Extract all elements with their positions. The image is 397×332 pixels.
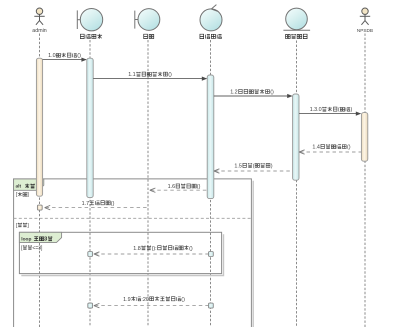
svg-text:3: 3: [44, 237, 47, 243]
svg-text:1.0: 1.0: [48, 53, 56, 59]
svg-text:): ): [351, 107, 353, 113]
svg-text:(): (): [347, 145, 351, 151]
svg-text:1.6: 1.6: [168, 184, 176, 190]
svg-text:admin: admin: [32, 28, 46, 34]
svg-text:(): (): [111, 201, 115, 207]
svg-text:1.2: 1.2: [230, 90, 238, 96]
svg-text:NPSDB: NPSDB: [357, 28, 373, 33]
svg-text:loop: loop: [21, 236, 31, 242]
svg-text:(): (): [168, 72, 172, 78]
svg-text:(): (): [197, 184, 201, 190]
svg-text:(): (): [77, 53, 81, 59]
svg-text:): ): [271, 163, 273, 169]
svg-text:1.5: 1.5: [234, 163, 242, 169]
svg-text:1.1: 1.1: [128, 72, 136, 78]
svg-text::20: :20: [141, 297, 149, 303]
svg-text:(: (: [338, 107, 340, 113]
svg-text:(): (): [181, 297, 185, 303]
svg-text:1.4: 1.4: [312, 145, 320, 151]
svg-text:alt: alt: [16, 184, 22, 190]
svg-text:():: ():: [152, 246, 157, 252]
svg-text:1.3.0: 1.3.0: [310, 107, 322, 113]
svg-text:1.8: 1.8: [133, 246, 141, 252]
svg-text:1.9: 1.9: [123, 297, 131, 303]
svg-text:(): (): [189, 246, 193, 252]
svg-text:(: (: [253, 163, 255, 169]
svg-text:1.7: 1.7: [82, 201, 90, 207]
svg-text:<=3]: <=3]: [32, 245, 43, 251]
svg-text:(): (): [270, 90, 274, 96]
